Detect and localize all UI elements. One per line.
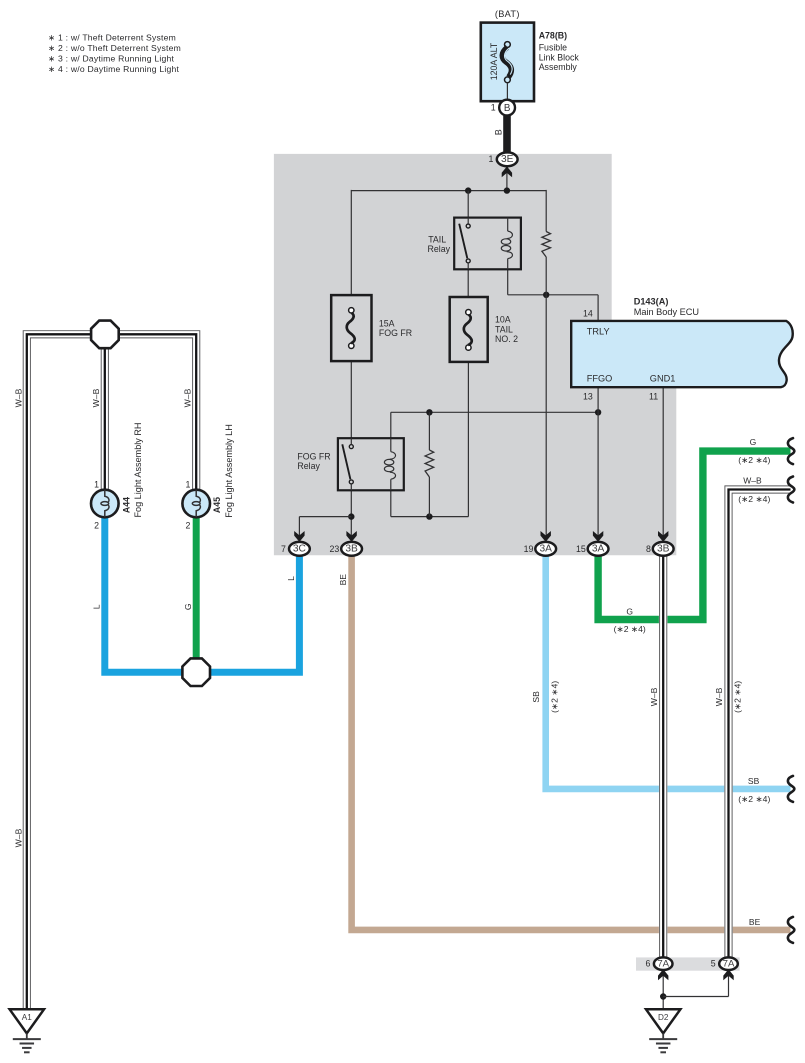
svg-text:3A: 3A — [539, 544, 552, 555]
svg-text:G: G — [183, 603, 193, 610]
svg-text:Relay: Relay — [428, 244, 451, 254]
svg-text:11: 11 — [649, 391, 658, 401]
svg-text:W–B: W–B — [743, 476, 762, 486]
svg-text:2: 2 — [94, 521, 99, 531]
break squiggle W-B — [788, 477, 794, 503]
wire ground D2 connections — [662, 970, 664, 1010]
svg-text:3C: 3C — [293, 544, 306, 555]
svg-text:∗ 1 : w/ Theft Deterrent Syste: ∗ 1 : w/ Theft Deterrent System — [48, 32, 176, 42]
connector 1 3E — [497, 152, 518, 166]
svg-text:FFGO: FFGO — [587, 374, 613, 384]
wire 15A fuse to FOG FR relay — [350, 361, 352, 438]
svg-text:Fog Light Assembly RH: Fog Light Assembly RH — [133, 422, 143, 517]
svg-text:W–B: W–B — [182, 388, 192, 407]
wire SB: connector 19 3A down and right — [546, 552, 791, 789]
svg-text:Link Block: Link Block — [539, 52, 580, 62]
resistor in FOG FR relay circuit — [425, 450, 434, 477]
fusible link block A78(B) — [481, 23, 534, 102]
break squiggle BE — [788, 917, 794, 943]
svg-text:1: 1 — [94, 479, 99, 489]
svg-text:GND1: GND1 — [650, 374, 676, 384]
wire G green: connector 15 3A loop to right edge — [598, 451, 790, 619]
svg-text:W–B: W–B — [91, 388, 101, 407]
svg-text:D143(A): D143(A) — [634, 296, 669, 306]
wire W-B: splice to ground A1 — [27, 334, 92, 1008]
svg-text:TAIL: TAIL — [428, 234, 446, 244]
svg-text:BE: BE — [749, 917, 761, 927]
wire B feed into junction block — [506, 172, 508, 191]
svg-text:W–B: W–B — [13, 388, 23, 407]
fuse 10A TAIL NO. 2 — [450, 297, 488, 362]
fuse 15A FOG FR — [331, 295, 371, 361]
svg-text:6: 6 — [645, 959, 650, 969]
connector strip 7A — [636, 957, 740, 970]
break squiggle G — [788, 438, 794, 464]
wire ECU pin 11 GND1 down to connector 8 3B — [662, 388, 664, 543]
splice octagon lower (L/G splice) — [182, 658, 210, 686]
wire FOG FR coil top bus — [391, 411, 598, 413]
svg-text:W–B: W–B — [714, 687, 724, 706]
splice octagon upper (ground splice) — [91, 321, 119, 349]
wire node down to connector 19 3A — [545, 295, 547, 542]
junction block J/B gray panel — [274, 154, 676, 555]
svg-text:W–B: W–B — [649, 687, 659, 706]
wire FOG FR coil bottom bus — [390, 490, 392, 516]
connector 8 3B — [658, 531, 668, 542]
svg-text:13: 13 — [583, 391, 593, 401]
svg-text:(∗2 ∗4): (∗2 ∗4) — [738, 794, 770, 804]
TAIL relay — [454, 218, 521, 270]
svg-text:15: 15 — [576, 544, 586, 554]
node FFGO junction — [595, 409, 601, 415]
FOG FR relay — [338, 438, 404, 490]
svg-text:Relay: Relay — [297, 461, 320, 471]
svg-text:(∗2 ∗4): (∗2 ∗4) — [614, 624, 646, 634]
svg-text:FOG FR: FOG FR — [379, 328, 412, 338]
connector 7 3C — [294, 531, 304, 542]
svg-text:B: B — [504, 103, 511, 114]
svg-text:3E: 3E — [501, 154, 514, 165]
connector B circle pin 1 — [499, 100, 515, 116]
svg-text:(BAT): (BAT) — [495, 9, 520, 19]
svg-text:G: G — [626, 607, 633, 617]
wire bus to TAIL relay switch — [467, 191, 469, 218]
wire W-B: splice to fog LH — [118, 334, 196, 490]
svg-text:(∗2 ∗4): (∗2 ∗4) — [738, 455, 770, 465]
svg-text:SB: SB — [748, 776, 760, 786]
ECU D143(A) Main Body ECU box — [571, 321, 793, 387]
svg-text:3B: 3B — [657, 544, 670, 555]
node TAIL relay output — [543, 292, 549, 298]
arrow into junction block — [502, 166, 512, 177]
wire link to pin 1 B — [506, 83, 508, 100]
break squiggle SB — [788, 776, 794, 802]
svg-text:TRLY: TRLY — [587, 326, 610, 336]
svg-text:G: G — [750, 437, 757, 447]
svg-text:8: 8 — [646, 544, 651, 554]
node bus from 3E — [351, 190, 546, 192]
svg-text:7A: 7A — [657, 958, 669, 969]
svg-text:1: 1 — [488, 154, 493, 164]
svg-text:Fusible: Fusible — [539, 42, 567, 52]
wire W-B: right edge to connector 5 7A — [729, 490, 791, 959]
resistor in TAIL relay circuit — [542, 232, 551, 258]
wire node to ECU pin 14 — [597, 295, 599, 321]
svg-text:120A ALT: 120A ALT — [489, 42, 499, 80]
svg-text:3B: 3B — [345, 544, 358, 555]
svg-text:Fog Light Assembly LH: Fog Light Assembly LH — [224, 424, 234, 518]
svg-text:2: 2 — [185, 521, 190, 531]
svg-text:19: 19 — [524, 544, 534, 554]
connector 6 7A — [658, 969, 668, 980]
wire TAIL relay switch to 10A fuse — [467, 269, 469, 297]
fog light assembly LH bulb A45 — [182, 490, 210, 518]
svg-text:3A: 3A — [592, 544, 605, 555]
wire W-B: splice to fog RH — [101, 347, 110, 491]
connector 15 3A — [593, 531, 603, 542]
fusible link 120A ALT — [505, 42, 511, 48]
svg-text:W–B: W–B — [13, 828, 23, 847]
svg-text:D2: D2 — [658, 1013, 669, 1022]
svg-text:Assembly: Assembly — [539, 62, 578, 72]
connector 23 3B — [346, 531, 356, 542]
wire G green: fog LH to splice — [193, 517, 200, 672]
svg-text:TAIL: TAIL — [495, 324, 513, 334]
wire W-B: connector 8 3B to connector 6 7A — [659, 556, 668, 959]
svg-text:L: L — [286, 576, 296, 581]
wire TAIL relay coil to node — [507, 269, 509, 295]
svg-text:∗ 2 : w/o Theft Deterrent Syst: ∗ 2 : w/o Theft Deterrent System — [48, 43, 181, 53]
wire FOG FR switch output — [350, 490, 352, 542]
svg-text:Main Body ECU: Main Body ECU — [634, 307, 699, 317]
svg-text:SB: SB — [531, 691, 541, 703]
wire bus to 15A fuse — [350, 190, 352, 295]
wire resistor to node — [545, 257, 547, 295]
svg-text:NO. 2: NO. 2 — [495, 334, 518, 344]
wire bus to TAIL relay resistor — [545, 190, 547, 232]
wire 10A fuse down to coil bus — [467, 362, 469, 517]
connector 5 7A — [723, 969, 733, 980]
svg-text:A1: A1 — [22, 1013, 32, 1022]
svg-text:(∗2 ∗4): (∗2 ∗4) — [732, 681, 742, 713]
fog light assembly RH bulb A44 — [91, 490, 119, 518]
svg-text:7A: 7A — [723, 958, 735, 969]
svg-text:A78(B): A78(B) — [539, 31, 567, 41]
svg-text:∗ 4 : w/o Daytime Running Ligh: ∗ 4 : w/o Daytime Running Light — [48, 64, 179, 74]
svg-text:A44: A44 — [122, 497, 132, 513]
wire ECU pin 13 FFGO down to connector 15 3A — [597, 388, 599, 542]
wire BE: connector 23 3B down and right — [352, 552, 791, 930]
ground A1 — [10, 1009, 44, 1033]
wire L blue: fog RH to splice to connector 7 3C — [105, 517, 300, 673]
connector 19 3A — [541, 531, 551, 542]
svg-text:23: 23 — [330, 544, 340, 554]
svg-text:∗ 3 : w/ Daytime Running Light: ∗ 3 : w/ Daytime Running Light — [48, 53, 174, 63]
svg-text:1: 1 — [185, 479, 190, 489]
wire B thick battery feed — [503, 116, 511, 154]
svg-text:L: L — [91, 604, 101, 609]
svg-text:7: 7 — [281, 544, 286, 554]
svg-text:(∗2 ∗4): (∗2 ∗4) — [738, 494, 770, 504]
svg-text:1: 1 — [491, 103, 496, 113]
svg-text:BE: BE — [338, 574, 348, 586]
ground D2 — [646, 1009, 680, 1033]
svg-text:5: 5 — [711, 959, 716, 969]
svg-text:FOG FR: FOG FR — [297, 452, 330, 462]
svg-text:B: B — [493, 129, 503, 135]
svg-text:14: 14 — [583, 309, 593, 319]
svg-text:10A: 10A — [495, 314, 511, 324]
svg-text:(∗2 ∗4): (∗2 ∗4) — [550, 681, 560, 713]
svg-text:A45: A45 — [212, 497, 222, 513]
